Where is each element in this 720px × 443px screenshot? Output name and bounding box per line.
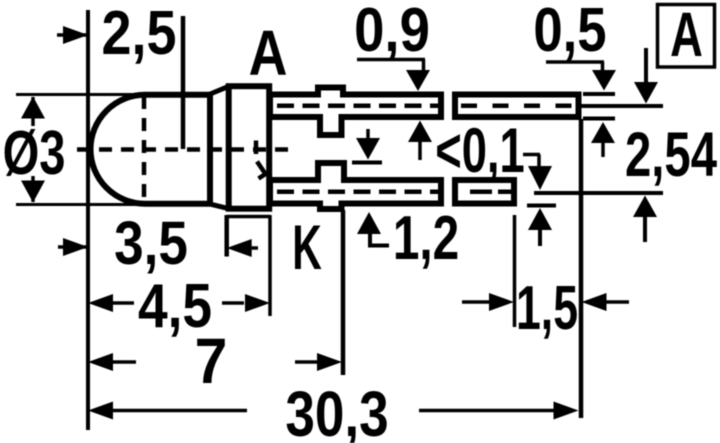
svg-text:0,5: 0,5 — [533, 0, 606, 65]
extension line flange rear — [268, 215, 272, 316]
svg-text:0,9: 0,9 — [354, 0, 430, 65]
anode lead centerline (dashed) — [277, 104, 443, 109]
dome to flange taper — [209, 86, 229, 209]
flange (body base) — [229, 86, 270, 209]
datum box A — [658, 0, 715, 70]
dimension 30,3 (total length) — [88, 379, 579, 443]
svg-text:Ø3: Ø3 — [3, 118, 66, 188]
svg-text:K: K — [292, 213, 322, 283]
anode lead segment 1 with stand-off tabs — [270, 88, 441, 136]
flange center tick — [254, 141, 259, 155]
svg-text:1,2: 1,2 — [393, 203, 459, 272]
axis centerline (dashed) — [77, 147, 288, 152]
svg-text:3,5: 3,5 — [114, 210, 188, 278]
dimension 7 (to stand-off) — [88, 326, 342, 398]
extension line stand-off end — [341, 210, 346, 375]
dome vertical centerline (dashed) — [142, 96, 147, 204]
dimension 3,5 (dome length) — [58, 210, 270, 278]
anode lead segment 2 — [455, 95, 579, 118]
dimension <0,1 (cut offset) — [435, 115, 556, 246]
svg-text:2,54: 2,54 — [625, 119, 717, 189]
chip position hook mark — [257, 162, 266, 179]
svg-text:A: A — [249, 17, 288, 90]
dimension 0,5 (lead end thickness) — [533, 0, 616, 157]
LED dome body — [90, 93, 210, 207]
svg-text:7: 7 — [195, 326, 228, 398]
cathode lead centerline (dashed) — [277, 190, 443, 195]
dimension 2,5 — [57, 0, 183, 149]
label K (cathode) — [292, 213, 322, 283]
dimension Ø3 — [3, 95, 150, 205]
svg-text:<0,1: <0,1 — [435, 115, 525, 186]
svg-text:30,3: 30,3 — [285, 379, 388, 443]
extension line lead end (long right) — [579, 119, 584, 418]
svg-text:1,5: 1,5 — [516, 274, 578, 343]
dimension 1,2 (stand-off width) — [352, 129, 459, 272]
dimension 2,54 (lead pitch) — [534, 48, 717, 242]
dimension 4,5 (body length) — [88, 272, 270, 341]
cathode lead segment 2 — [455, 180, 514, 204]
svg-text:A: A — [670, 0, 703, 70]
dimension 0,9 (lead thickness) — [354, 0, 432, 160]
extension line left (dome front face) — [86, 10, 90, 430]
label A (anode) — [249, 17, 288, 90]
svg-text:2,5: 2,5 — [102, 0, 177, 68]
dimension 1,5 (lead length difference) — [462, 215, 629, 343]
cathode lead segment 1 with stand-off tabs — [270, 163, 441, 209]
